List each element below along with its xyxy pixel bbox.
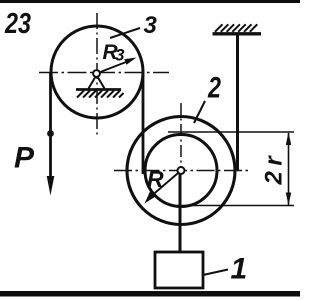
svg-text:1: 1 [231,253,248,286]
svg-text:2r: 2r [261,151,288,186]
pulley 2 inner wheel [145,135,217,207]
centerline vertical pulley 3 [96,13,98,137]
ground hatching [77,91,124,98]
svg-text:P: P [14,142,35,175]
top frame bar [0,0,300,3]
svg-text:23: 23 [4,8,31,40]
svg-text:3: 3 [115,46,125,65]
block 1 [155,252,203,288]
svg-text:R: R [147,166,164,192]
dimension line 2r [288,133,290,206]
pin of pulley 3 [93,70,100,77]
force P arrow [49,134,52,181]
rope left of pulley 3 [49,72,52,131]
pin of pulley 2 [178,167,185,174]
force application dot [47,130,54,137]
support triangle of pulley 3 [89,75,105,89]
rope pulley 2 to block [179,174,182,253]
rope right of pulley 3 down to pulley 2 [142,72,145,174]
leader line for 2 [194,101,205,123]
dimension extension line bottom [177,205,294,207]
pulley 3 wheel [51,26,143,118]
ceiling hatching [215,24,257,32]
centerline horizontal pulley 3 [39,72,169,74]
centerline vertical pulley 2 [180,103,182,168]
radius arrow R3 [99,61,130,73]
leader line for 1 [203,270,228,276]
leader line for 3 [110,28,140,38]
pulley 2 outer wheel [127,117,235,225]
rope ceiling to pulley 2 [236,35,239,171]
centerline horizontal pulley 2 [114,170,250,172]
radius arrow R of pulley 2 [149,171,181,199]
bottom frame bar [0,291,300,297]
ground line of support [76,88,121,91]
dimension extension line top [168,131,294,133]
ceiling bar [213,32,262,35]
svg-text:3: 3 [144,12,158,39]
svg-text:2: 2 [207,72,221,105]
